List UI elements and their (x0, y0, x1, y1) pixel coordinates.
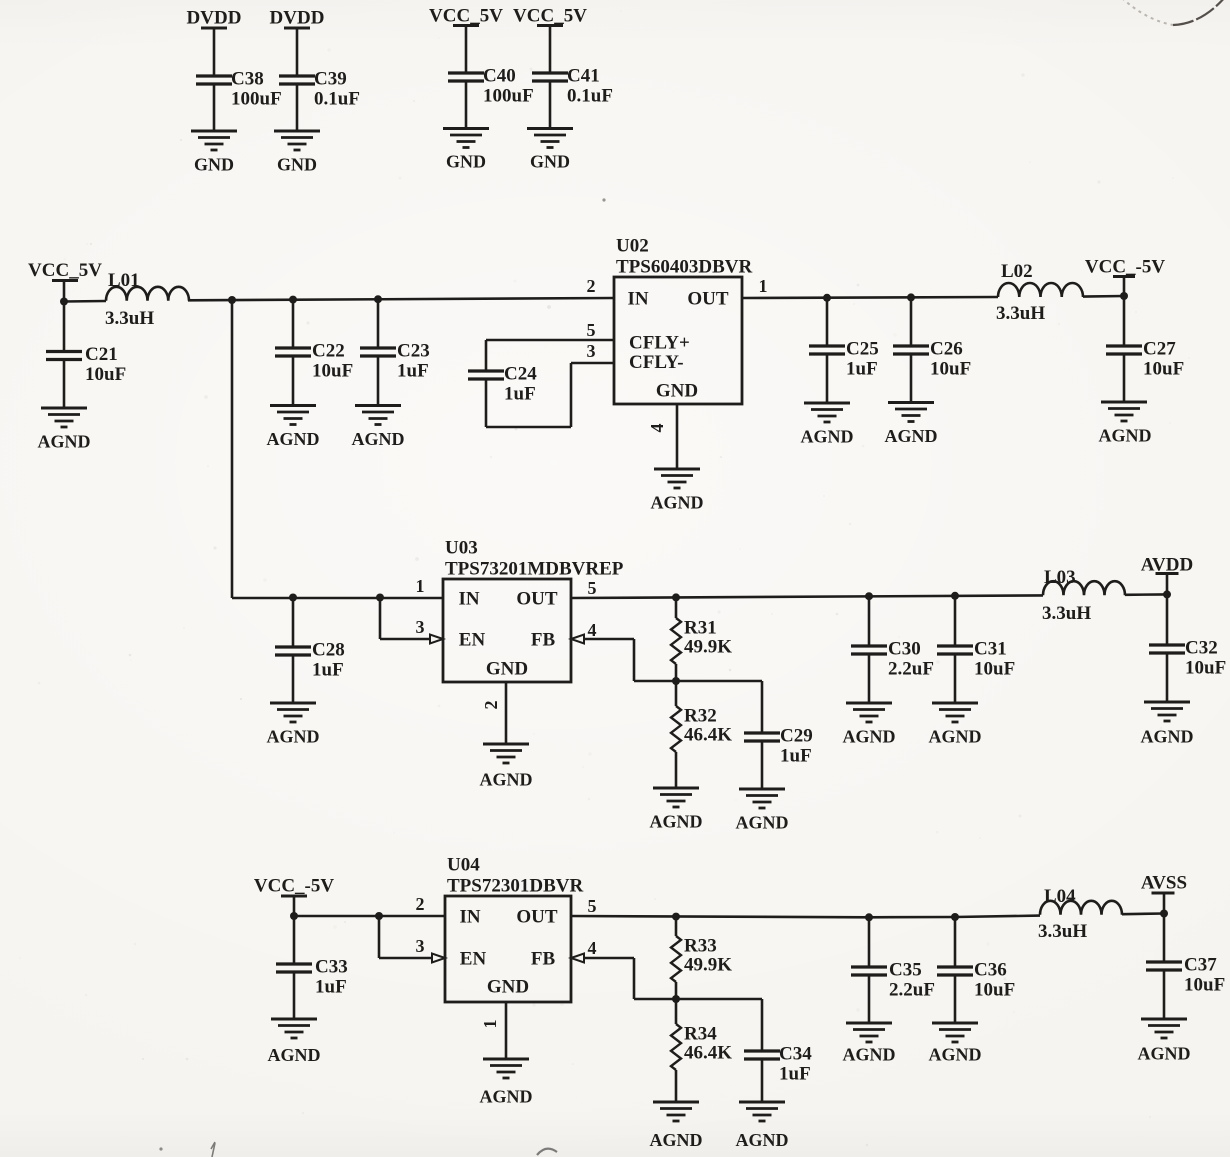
wire (465, 81, 468, 129)
svg-text:C34: C34 (779, 1044, 812, 1065)
wire (294, 915, 445, 918)
ground AGND (C34) (739, 1101, 785, 1104)
wire (465, 26, 468, 74)
svg-text:0.1uF: 0.1uF (567, 86, 613, 107)
junction (865, 592, 873, 600)
wire (377, 356, 380, 406)
ground AGND (U04) (483, 1058, 529, 1061)
svg-text:AVSS: AVSS (1141, 873, 1187, 894)
capacitor C25 1uF (826, 298, 829, 346)
svg-text:R33: R33 (684, 936, 717, 957)
svg-text:TPS72301DBVR: TPS72301DBVR (447, 876, 583, 897)
svg-text:3: 3 (416, 936, 425, 956)
wire (1122, 912, 1164, 915)
wire (761, 1059, 764, 1102)
svg-text:1uF: 1uF (315, 977, 347, 998)
ground AGND (C25) (804, 402, 850, 405)
ground GND (C38) (191, 130, 237, 133)
svg-text:2: 2 (416, 894, 425, 914)
capacitor C28 1uF (292, 598, 295, 648)
svg-text:C40: C40 (483, 66, 516, 87)
svg-text:C27: C27 (1143, 339, 1176, 360)
svg-text:AGND: AGND (736, 813, 789, 833)
svg-text:5: 5 (588, 578, 597, 598)
svg-text:L02: L02 (1001, 261, 1033, 282)
junction (672, 913, 680, 921)
svg-text:R34: R34 (684, 1024, 717, 1045)
ground AGND (C33) (271, 1018, 317, 1021)
svg-text:IN: IN (627, 289, 648, 310)
svg-text:C21: C21 (85, 344, 118, 365)
resistor R31 49.9K (675, 597, 678, 618)
wire (63, 281, 66, 302)
wire (188, 298, 614, 300)
svg-text:4: 4 (588, 620, 597, 640)
wire (1125, 593, 1167, 596)
svg-text:U03: U03 (445, 538, 478, 559)
op-amp U03 TPS73201MDBVREP (443, 579, 571, 682)
wire (549, 26, 552, 74)
svg-text:GND: GND (277, 155, 317, 175)
junction (228, 296, 236, 304)
ground GND (C41) (527, 127, 573, 130)
svg-text:CFLY+: CFLY+ (629, 333, 690, 354)
svg-text:AGND: AGND (651, 493, 704, 513)
svg-text:AGND: AGND (480, 770, 533, 790)
wire OUT (571, 916, 1040, 918)
wire FB net (584, 957, 634, 960)
inductor L02 3.3uH (998, 283, 1083, 297)
capacitor C36 10uF (954, 917, 957, 967)
wire (213, 28, 216, 76)
resistor R34 46.4K (675, 999, 678, 1024)
wire (954, 975, 957, 1023)
svg-text:AGND: AGND (929, 727, 982, 747)
ground AGND (C23) (355, 404, 401, 407)
svg-text:1: 1 (480, 1020, 500, 1029)
wire VCC_5V to U03 (231, 300, 234, 598)
svg-text:AGND: AGND (480, 1087, 533, 1107)
pin arrow EN (U03) (430, 635, 443, 644)
svg-text:L01: L01 (108, 270, 140, 291)
capacitor C31 10uF (954, 596, 957, 646)
ground AGND (C22) (270, 404, 316, 407)
wire EN branch (378, 916, 381, 958)
junction (672, 593, 680, 601)
wire (293, 896, 296, 916)
svg-text:1uF: 1uF (846, 359, 878, 380)
wire (63, 360, 66, 409)
wire (1166, 653, 1169, 702)
svg-text:C36: C36 (974, 960, 1007, 981)
svg-text:FB: FB (531, 949, 556, 970)
svg-text:1uF: 1uF (312, 660, 344, 681)
junction (289, 594, 297, 602)
svg-text:AGND: AGND (1099, 426, 1152, 446)
op-amp U02 TPS60403DBVR (614, 277, 742, 404)
wire (296, 84, 299, 131)
wire CFLY+ pin 5 (486, 339, 614, 342)
svg-text:VCC_5V: VCC_5V (28, 260, 102, 281)
svg-text:GND: GND (194, 155, 234, 175)
svg-text:AGND: AGND (843, 1045, 896, 1065)
capacitor C32 10uF (1166, 594, 1169, 645)
ground AGND (C32) (1144, 701, 1190, 704)
svg-text:4: 4 (647, 424, 667, 433)
svg-text:IN: IN (458, 589, 479, 610)
svg-text:C28: C28 (312, 640, 345, 661)
scan artifact dot (602, 198, 605, 201)
capacitor C38 100uF (196, 74, 232, 77)
capacitor C41 0.1uF (532, 71, 568, 74)
junction (375, 912, 383, 920)
svg-text:AGND: AGND (1141, 727, 1194, 747)
svg-text:10uF: 10uF (1185, 658, 1226, 679)
svg-text:1uF: 1uF (780, 746, 812, 767)
junction node FB (672, 677, 680, 685)
svg-text:10uF: 10uF (974, 980, 1015, 1001)
wire (485, 379, 488, 427)
svg-text:VCC_5V: VCC_5V (429, 6, 503, 27)
wire GND pin (505, 682, 508, 744)
wire (549, 81, 552, 129)
svg-text:AGND: AGND (1138, 1044, 1191, 1064)
wire GND pin (676, 404, 679, 469)
svg-text:C31: C31 (974, 639, 1007, 660)
svg-text:AGND: AGND (267, 727, 320, 747)
wire (1083, 295, 1124, 298)
svg-text:GND: GND (446, 152, 486, 172)
svg-text:GND: GND (530, 152, 570, 172)
svg-text:C35: C35 (889, 960, 922, 981)
svg-text:VCC_-5V: VCC_-5V (1085, 257, 1165, 278)
svg-text:EN: EN (460, 949, 487, 970)
svg-text:C33: C33 (315, 957, 348, 978)
junction (376, 594, 384, 602)
resistor R33 49.9K (675, 917, 678, 936)
wire (826, 354, 829, 403)
wire GND pin (505, 1002, 508, 1059)
pin arrow EN (U04) (432, 954, 445, 963)
capacitor C37 10uF (1163, 914, 1166, 963)
svg-text:AGND: AGND (801, 427, 854, 447)
svg-text:U04: U04 (447, 855, 480, 876)
ground AGND (C31) (932, 702, 978, 705)
svg-text:EN: EN (459, 630, 486, 651)
wire (1123, 354, 1126, 402)
svg-text:C26: C26 (930, 339, 963, 360)
svg-text:AGND: AGND (885, 426, 938, 446)
wire (761, 741, 764, 789)
junction (951, 913, 959, 921)
wire (570, 363, 573, 427)
op-amp U04 TPS72301DBVR (445, 896, 571, 1002)
svg-text:AGND: AGND (267, 429, 320, 449)
svg-text:100uF: 100uF (483, 86, 534, 107)
ground AGND (U03) (483, 743, 529, 746)
junction (865, 913, 873, 921)
svg-text:C29: C29 (780, 726, 813, 747)
ground AGND (C27) (1101, 401, 1147, 404)
ground AGND (C35) (846, 1022, 892, 1025)
capacitor C21 10uF (63, 302, 66, 352)
svg-text:AGND: AGND (650, 812, 703, 832)
svg-text:CFLY-: CFLY- (629, 352, 684, 373)
capacitor C33 1uF (293, 916, 296, 964)
wire (213, 84, 216, 131)
svg-text:GND: GND (486, 659, 528, 680)
svg-text:GND: GND (656, 381, 698, 402)
ground AGND (C21) (41, 407, 87, 410)
svg-text:5: 5 (588, 896, 597, 916)
wire CFLY- pin 3 (571, 362, 614, 365)
svg-text:C30: C30 (888, 639, 921, 660)
svg-text:3.3uH: 3.3uH (1038, 921, 1087, 942)
wire (292, 655, 295, 703)
svg-text:3: 3 (416, 617, 425, 637)
svg-text:AGND: AGND (650, 1130, 703, 1150)
wire OUT (742, 297, 998, 298)
svg-text:10uF: 10uF (1184, 975, 1225, 996)
svg-text:5: 5 (587, 320, 596, 340)
svg-text:DVDD: DVDD (270, 8, 325, 29)
ground AGND (C26) (888, 401, 934, 404)
wire (292, 356, 295, 406)
pin arrow FB (U04) (571, 954, 584, 963)
inductor L04 3.3uH (1040, 901, 1122, 915)
svg-text:L04: L04 (1044, 886, 1076, 907)
svg-text:3.3uH: 3.3uH (1042, 603, 1091, 624)
svg-text:10uF: 10uF (930, 359, 971, 380)
paper speckle noise (decorative) (399, 177, 402, 180)
svg-text:3: 3 (587, 341, 596, 361)
svg-text:4: 4 (588, 938, 597, 958)
svg-text:C37: C37 (1184, 955, 1217, 976)
svg-text:C24: C24 (504, 364, 537, 385)
wire (676, 998, 762, 1001)
svg-text:OUT: OUT (516, 907, 558, 928)
scan artifact arc (top right) (1122, 0, 1173, 25)
scan artifact dash (bottom middle) (537, 1149, 557, 1155)
wire (1123, 277, 1126, 297)
junction node VCC_-5V (1120, 292, 1128, 300)
wire (296, 28, 299, 76)
junction node FB2 (672, 995, 680, 1003)
svg-text:0.1uF: 0.1uF (314, 89, 360, 110)
wire (1163, 970, 1166, 1019)
svg-text:100uF: 100uF (231, 89, 282, 110)
ground GND (C39) (274, 130, 320, 133)
svg-text:10uF: 10uF (312, 361, 353, 382)
wire (64, 300, 106, 303)
svg-text:1: 1 (416, 576, 425, 596)
junction (823, 294, 831, 302)
wire (1163, 893, 1166, 914)
svg-text:2.2uF: 2.2uF (889, 980, 935, 1001)
ground AGND (R32) (653, 787, 699, 790)
wire (485, 340, 488, 371)
inductor L03 3.3uH (1043, 581, 1125, 595)
svg-text:AGND: AGND (736, 1130, 789, 1150)
svg-text:10uF: 10uF (85, 364, 126, 385)
svg-text:49.9K: 49.9K (684, 955, 732, 976)
svg-text:C32: C32 (1185, 638, 1218, 659)
ground AGND (R34) (653, 1101, 699, 1104)
wire (1166, 574, 1169, 595)
wire (868, 654, 871, 703)
svg-text:IN: IN (459, 907, 480, 928)
capacitor C27 10uF (1123, 296, 1126, 346)
svg-text:R31: R31 (684, 618, 717, 639)
junction (907, 293, 915, 301)
wire (676, 680, 762, 683)
svg-text:C41: C41 (567, 66, 600, 87)
svg-text:AGND: AGND (268, 1045, 321, 1065)
svg-text:GND: GND (487, 977, 529, 998)
scan artifact pen mark (bottom left) (211, 1142, 215, 1157)
wire OUT (571, 595, 1043, 598)
capacitor C39 0.1uF (279, 74, 315, 77)
capacitor C40 100uF (448, 71, 484, 74)
svg-text:C25: C25 (846, 339, 879, 360)
capacitor C35 2.2uF (868, 917, 871, 967)
capacitor C22 10uF (292, 300, 295, 348)
svg-text:10uF: 10uF (974, 659, 1015, 680)
svg-text:VCC_5V: VCC_5V (513, 6, 587, 27)
svg-text:C23: C23 (397, 341, 430, 362)
svg-text:49.9K: 49.9K (684, 637, 732, 658)
wire EN branch (379, 598, 382, 640)
junction (290, 912, 298, 920)
svg-text:46.4K: 46.4K (684, 725, 732, 746)
junction node AVSS (1160, 910, 1168, 918)
wire (486, 426, 571, 429)
capacitor C26 10uF (910, 297, 913, 346)
svg-text:U02: U02 (616, 236, 649, 257)
wire (868, 975, 871, 1023)
svg-text:TPS73201MDBVREP: TPS73201MDBVREP (445, 559, 624, 580)
svg-text:AGND: AGND (929, 1045, 982, 1065)
capacitor C24 1uF (468, 369, 504, 372)
svg-text:C39: C39 (314, 69, 347, 90)
svg-text:2: 2 (587, 276, 596, 296)
ground AGND (C28) (270, 702, 316, 705)
svg-text:R32: R32 (684, 706, 717, 727)
inductor L01 3.3uH (106, 287, 189, 301)
svg-text:1uF: 1uF (397, 361, 429, 382)
junction node VCC_5V (60, 298, 68, 306)
ground AGND (U02) (654, 468, 700, 471)
junction (374, 295, 382, 303)
wire (910, 354, 913, 403)
ground AGND (C37) (1141, 1018, 1187, 1021)
ground AGND (C29) (739, 788, 785, 791)
svg-text:VCC_-5V: VCC_-5V (254, 876, 334, 897)
ground AGND (C36) (932, 1022, 978, 1025)
svg-text:2: 2 (481, 701, 501, 710)
wire (954, 654, 957, 703)
wire (293, 972, 296, 1019)
capacitor C30 2.2uF (868, 596, 871, 646)
svg-text:OUT: OUT (516, 589, 558, 610)
svg-text:46.4K: 46.4K (684, 1043, 732, 1064)
wire FB net (584, 638, 634, 641)
svg-text:FB: FB (531, 630, 556, 651)
svg-text:1uF: 1uF (779, 1064, 811, 1085)
svg-text:TPS60403DBVR: TPS60403DBVR (616, 257, 752, 278)
svg-text:AGND: AGND (843, 727, 896, 747)
capacitor C34 1uF (761, 999, 764, 1051)
svg-text:OUT: OUT (687, 289, 729, 310)
junction node AVDD (1163, 590, 1171, 598)
capacitor C29 1uF (761, 681, 764, 733)
svg-text:L03: L03 (1044, 567, 1076, 588)
junction (951, 592, 959, 600)
svg-text:3.3uH: 3.3uH (996, 303, 1045, 324)
pin arrow FB (U03) (571, 635, 584, 644)
svg-text:AGND: AGND (352, 429, 405, 449)
svg-text:3.3uH: 3.3uH (105, 308, 154, 329)
svg-text:DVDD: DVDD (187, 8, 242, 29)
ground AGND (C30) (846, 702, 892, 705)
ground GND (C40) (443, 127, 489, 130)
svg-text:C38: C38 (231, 69, 264, 90)
svg-text:10uF: 10uF (1143, 359, 1184, 380)
junction (289, 296, 297, 304)
svg-text:1: 1 (759, 276, 768, 296)
svg-text:2.2uF: 2.2uF (888, 659, 934, 680)
svg-text:AGND: AGND (38, 432, 91, 452)
svg-text:C22: C22 (312, 341, 345, 362)
capacitor C23 1uF (377, 299, 380, 348)
resistor R32 46.4K (675, 681, 678, 706)
svg-text:1uF: 1uF (504, 384, 536, 405)
